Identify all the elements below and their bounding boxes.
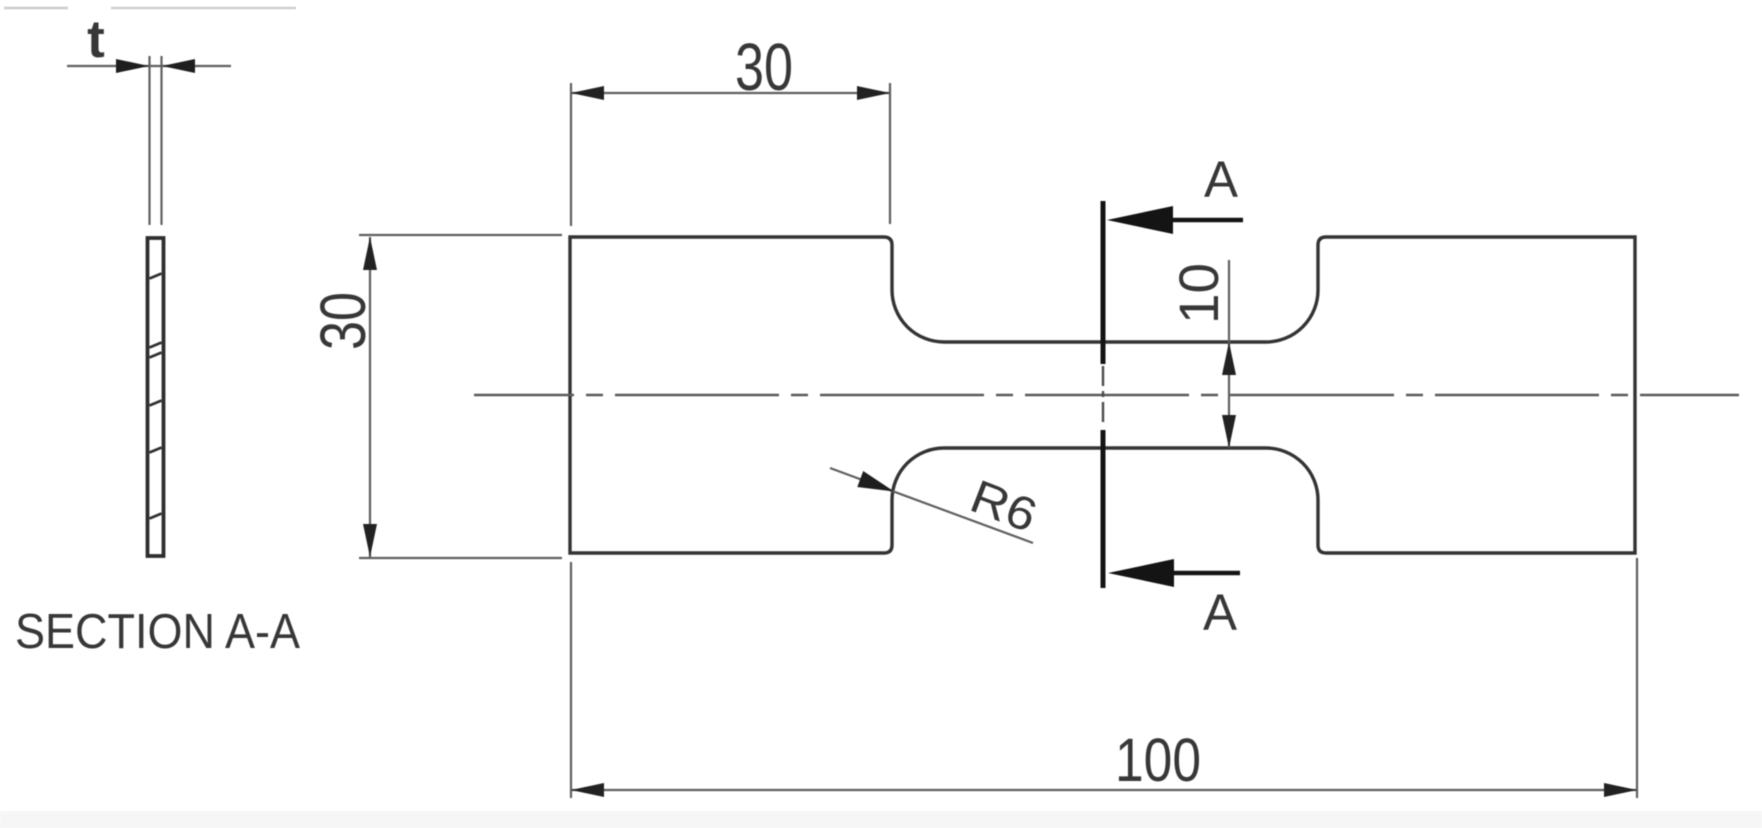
section view hatch tick 4	[150, 401, 162, 406]
svg-text:A: A	[1203, 584, 1237, 641]
R6 leader line	[830, 468, 1033, 543]
dim 100 arrow left	[571, 783, 604, 797]
t dimension arrow right	[162, 59, 195, 73]
section cut line upper thick segment	[1101, 201, 1106, 364]
svg-text:10: 10	[1167, 263, 1230, 324]
dim 30 top arrow left	[571, 86, 604, 100]
section cut line lower thick segment	[1101, 430, 1106, 588]
section cut line middle dash-dot	[1102, 366, 1104, 427]
dim 30 left arrow top	[363, 237, 377, 270]
svg-text:100: 100	[1115, 726, 1201, 794]
dim 30 left extension line top	[359, 234, 562, 236]
faint cropped line top-left	[4, 7, 68, 9]
faint cropped line top-right	[111, 7, 296, 9]
dim 100 dimension line	[571, 789, 1637, 791]
dim 100 extension line left	[570, 562, 572, 798]
section view plate outline	[148, 238, 164, 556]
t dimension arrow left	[116, 59, 149, 73]
svg-text:R6: R6	[964, 469, 1045, 542]
dim 30 top extension line left	[570, 83, 572, 226]
section view hatch tick 1	[150, 274, 162, 279]
section view hatch tick 5	[150, 448, 162, 453]
dim 30 left arrow bottom	[363, 524, 377, 557]
t dimension extension line left	[148, 56, 150, 225]
section arrow top head	[1107, 206, 1173, 234]
R6 leader arrow	[857, 471, 894, 492]
section arrow bottom shaft	[1168, 571, 1240, 576]
section view hatch tick 6	[150, 514, 162, 519]
dim 100 arrow right	[1604, 783, 1637, 797]
dim 30 left dimension line	[369, 237, 371, 557]
faint scan band bottom	[0, 811, 1762, 828]
svg-text:A: A	[1204, 151, 1238, 208]
dim 10 arrow down	[1222, 415, 1236, 448]
section arrow bottom head	[1108, 559, 1174, 587]
t dimension line	[67, 65, 231, 67]
specimen outline	[570, 237, 1635, 553]
dim 100 extension line right	[1636, 558, 1638, 798]
centerline	[474, 394, 1739, 397]
t dimension extension line right	[160, 56, 162, 225]
dim 10 dimension line	[1228, 260, 1230, 448]
section arrow top shaft	[1168, 218, 1243, 223]
svg-text:30: 30	[735, 30, 793, 105]
dim 30 top dimension line	[571, 92, 890, 94]
section view hatch tick 3	[150, 353, 162, 358]
svg-text:30: 30	[307, 292, 379, 350]
svg-text:t: t	[87, 10, 105, 69]
dim 30 top extension line right	[889, 83, 891, 224]
dim 30 top arrow right	[857, 86, 890, 100]
svg-text:SECTION A-A: SECTION A-A	[15, 605, 300, 659]
dim 10 arrow up	[1222, 342, 1236, 375]
dim 30 left extension line bottom	[359, 557, 562, 559]
section view hatch tick 2	[150, 343, 162, 348]
